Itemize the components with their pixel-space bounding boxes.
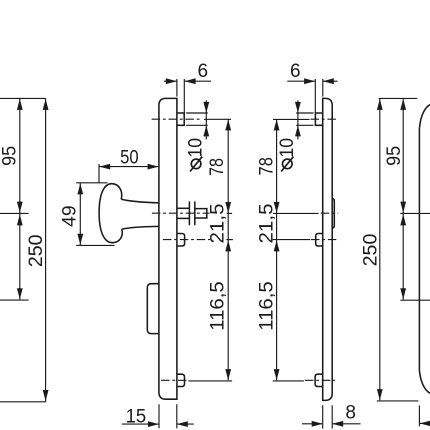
extension line knob top bbox=[76, 182, 107, 184]
extension line keyhole centre right bbox=[400, 299, 430, 301]
arrow 95 left bottom bbox=[17, 202, 23, 213]
svg-text:15: 15 bbox=[126, 406, 147, 427]
dimension line 49 bbox=[79, 183, 81, 245]
spindle shaft bbox=[195, 209, 207, 218]
arrow PZ left bottom bbox=[17, 288, 23, 299]
extension 15 b bbox=[176, 404, 178, 428]
left bottom screw bush bbox=[177, 374, 185, 386]
front plate bottom corner arc bbox=[419, 371, 430, 394]
extension 6 right a bbox=[314, 79, 316, 113]
extension 6 left a bbox=[176, 79, 178, 97]
dim line 8 tail a bbox=[302, 423, 323, 425]
dim line 6 right tail b bbox=[323, 80, 338, 82]
right top screw bush bbox=[315, 113, 322, 125]
svg-text:78: 78 bbox=[207, 158, 228, 176]
arrow 15 b bbox=[177, 421, 188, 427]
arrow PZ left top bbox=[17, 214, 23, 225]
knob head bbox=[99, 184, 122, 243]
arrow 250 right top bbox=[377, 99, 383, 110]
extension handle right bbox=[273, 212, 319, 214]
arrow 50 right bbox=[148, 164, 159, 170]
svg-text:6: 6 bbox=[290, 61, 301, 82]
extension line plate top left bbox=[0, 97, 46, 99]
right bottom screw bush bbox=[315, 374, 323, 386]
spindle hub top bbox=[177, 207, 189, 209]
dim line 6 left tail b bbox=[185, 80, 211, 82]
svg-text:50: 50 bbox=[120, 148, 139, 169]
arrow 8 b bbox=[332, 421, 343, 427]
front plate top corner arc bbox=[420, 105, 430, 128]
chain right arrow up 116 bbox=[274, 240, 280, 251]
label O10 right diameter symbol bbox=[283, 159, 293, 169]
arrow O10 up left bbox=[203, 125, 209, 136]
dim line 8 tail b bbox=[332, 423, 360, 425]
svg-text:116,5: 116,5 bbox=[257, 281, 278, 331]
hole top edge line right bbox=[296, 112, 313, 114]
centreline handle left bbox=[152, 212, 210, 214]
extension top hole left bbox=[204, 118, 231, 120]
front plate width arrow bbox=[420, 421, 430, 427]
svg-text:95: 95 bbox=[0, 146, 21, 166]
extension 8 b bbox=[331, 405, 333, 428]
svg-text:10: 10 bbox=[277, 138, 298, 158]
svg-text:49: 49 bbox=[59, 205, 80, 227]
right cylinder bush bbox=[316, 234, 323, 247]
centreline handle right bbox=[321, 212, 339, 214]
hole bottom edge line right bbox=[296, 124, 313, 126]
front plate left edge bbox=[418, 128, 420, 371]
centreline bottom hole left bbox=[161, 379, 187, 381]
left plate outline bbox=[159, 98, 177, 399]
dim line O10 right bbox=[297, 100, 299, 139]
svg-text:116,5: 116,5 bbox=[207, 281, 228, 331]
extension line plate top right bbox=[379, 97, 417, 99]
extension line keyhole centre left bbox=[0, 299, 29, 301]
svg-text:250: 250 bbox=[26, 234, 47, 267]
extension 15 a bbox=[158, 404, 160, 428]
extension top hole right bbox=[273, 118, 310, 120]
extension line plate bottom left bbox=[0, 401, 46, 403]
arrow 6 left a bbox=[166, 78, 177, 84]
extension bottom hole right bbox=[273, 380, 304, 382]
dimension line PZ right bbox=[402, 214, 404, 300]
svg-text:21,5: 21,5 bbox=[256, 204, 277, 244]
spindle washer right bbox=[194, 201, 196, 225]
right plate outline bbox=[323, 98, 333, 400]
spindle washer left bbox=[188, 201, 190, 225]
svg-text:95: 95 bbox=[384, 146, 405, 166]
chain dimension line right bbox=[276, 119, 278, 380]
arrow 95 left top bbox=[17, 99, 23, 110]
extension line handle centre left bbox=[0, 212, 29, 214]
dimension line PZ left bbox=[19, 214, 21, 300]
knob neck top bbox=[121, 199, 159, 203]
arrow 250 left top bbox=[43, 99, 49, 110]
arrow O10 down left bbox=[203, 102, 209, 113]
svg-text:6: 6 bbox=[198, 61, 209, 82]
svg-text:21,5: 21,5 bbox=[207, 204, 228, 244]
dim line O10 left bbox=[205, 100, 207, 139]
arrow 95 right bottom bbox=[400, 202, 406, 213]
dim line 15 tail a bbox=[122, 423, 159, 425]
svg-text:78: 78 bbox=[256, 157, 277, 175]
arrow 50 left bbox=[99, 164, 110, 170]
arrow 49 top bbox=[77, 183, 83, 194]
svg-text:8: 8 bbox=[345, 403, 356, 424]
arrow 6 right a bbox=[304, 78, 315, 84]
dim line 6 left tail a bbox=[164, 80, 177, 82]
extension 6 left b bbox=[183, 79, 185, 113]
hole top edge line left bbox=[186, 112, 208, 114]
front plate width extension line bbox=[418, 406, 420, 427]
extension line knob tip bbox=[98, 164, 100, 183]
arrow PZ right top bbox=[400, 214, 406, 225]
chain right arrow up 78 bbox=[274, 119, 280, 130]
dimension line 250 left bbox=[45, 98, 47, 401]
arrow PZ right bottom bbox=[400, 288, 406, 299]
left plate cylinder cover tab bbox=[147, 284, 159, 334]
chain left tick cylinder bbox=[226, 239, 233, 241]
chain left arrow up 78 bbox=[225, 119, 231, 130]
svg-text:250: 250 bbox=[360, 234, 381, 267]
extension 6 right b bbox=[322, 79, 324, 97]
chain dimension line left bbox=[227, 119, 229, 380]
arrow 49 bottom bbox=[77, 234, 83, 245]
front plate width dim line bbox=[420, 422, 430, 424]
arrow 6 left b bbox=[185, 78, 196, 84]
right plate back pad bbox=[332, 198, 334, 228]
arrow 15 a bbox=[148, 421, 159, 427]
dimension line 95 right bbox=[402, 98, 404, 213]
extension line plate bottom right bbox=[377, 400, 419, 402]
centreline top hole left bbox=[152, 118, 200, 120]
dimension line 50 bbox=[99, 166, 158, 168]
arrow O10 down right bbox=[295, 102, 301, 113]
chain left arrow down 78 bbox=[225, 202, 231, 213]
arrow 95 right top bbox=[400, 99, 406, 110]
arrow 6 right b bbox=[323, 78, 334, 84]
chain right arrow down 116 bbox=[274, 369, 280, 380]
centreline cylinder right bbox=[311, 239, 336, 241]
extension cylinder right bbox=[273, 239, 311, 241]
centreline bottom hole right bbox=[305, 379, 335, 381]
dimension line 95 left bbox=[19, 98, 21, 213]
chain right arrow down 78 bbox=[274, 202, 280, 213]
extension line handle centre right bbox=[400, 212, 430, 214]
extension 8 a bbox=[322, 405, 324, 428]
arrow O10 up right bbox=[295, 125, 301, 136]
centreline top hole right bbox=[311, 118, 339, 120]
dim line 15 tail b bbox=[177, 423, 194, 425]
arrow 8 a bbox=[312, 421, 323, 427]
hole bottom edge line left bbox=[186, 124, 208, 126]
extension bottom hole left bbox=[188, 380, 232, 382]
left cylinder bush bbox=[177, 234, 185, 247]
knob neck bottom bbox=[122, 226, 159, 229]
left top screw bush bbox=[177, 113, 184, 125]
chain left tick handle bbox=[227, 212, 232, 214]
centreline cylinder left bbox=[163, 239, 210, 241]
label O10 left diameter symbol bbox=[191, 159, 201, 169]
dimension line 250 right bbox=[379, 98, 381, 400]
svg-text:10: 10 bbox=[186, 138, 207, 158]
chain left arrow up 116 bbox=[225, 240, 231, 251]
arrow 250 right bottom bbox=[377, 389, 383, 400]
spindle hub bottom bbox=[177, 217, 189, 219]
chain left arrow down 116 bbox=[225, 369, 231, 380]
dim line 6 right tail a bbox=[287, 80, 315, 82]
extension line knob bottom bbox=[76, 244, 114, 246]
arrow 250 left bottom bbox=[43, 390, 49, 401]
